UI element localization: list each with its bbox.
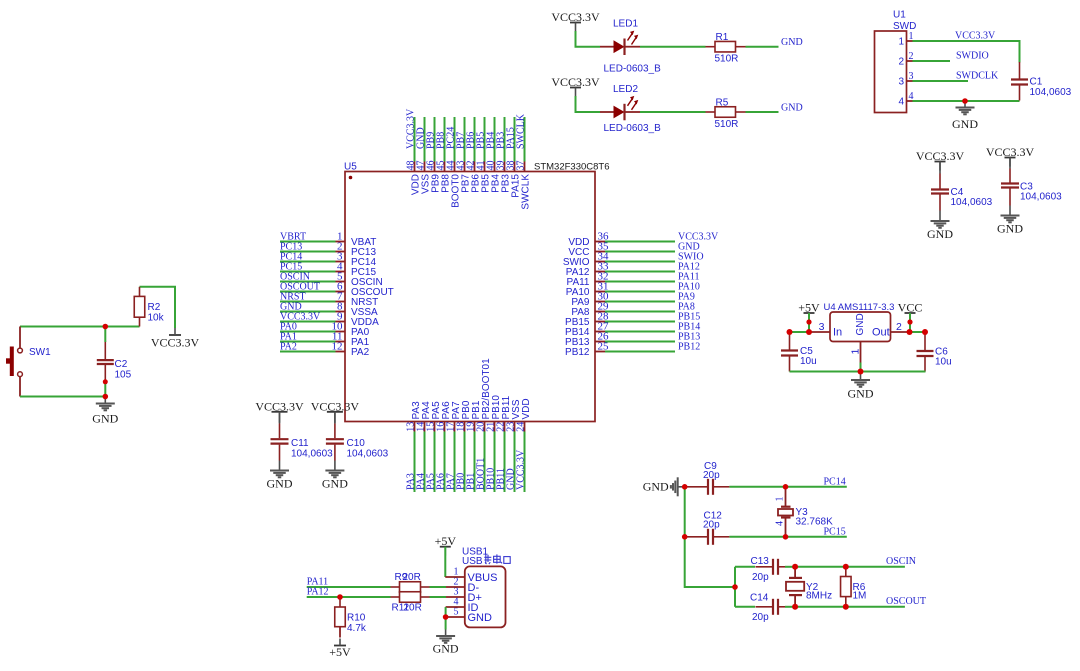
U5 pin 2 PC13 <box>335 241 376 259</box>
U5 pin 27 PB14 <box>565 321 609 339</box>
junction <box>843 564 849 570</box>
capacitor C3 104,0603 <box>1001 158 1062 210</box>
svg-text:C2: C2 <box>115 359 128 370</box>
junction <box>962 98 968 104</box>
capacitor C13 20p <box>751 556 786 583</box>
U5 pin 39 PB3 <box>495 161 511 193</box>
svg-text:1M: 1M <box>853 591 867 602</box>
wire <box>605 331 675 333</box>
junction <box>682 484 688 490</box>
wire <box>514 432 516 493</box>
power VCC (U4 out) <box>898 301 923 323</box>
wire <box>524 432 526 493</box>
U5 pin 30 PA9 <box>571 291 609 309</box>
power VCC3.3V (C10) <box>311 399 360 423</box>
svg-text:PA2: PA2 <box>280 342 297 353</box>
wire U4 Out to C6/VCC <box>909 331 925 333</box>
svg-text:SWCLK: SWCLK <box>515 113 526 149</box>
U5 pin 6 OSCOUT <box>335 281 394 299</box>
wire SW1 bottom <box>20 396 105 398</box>
svg-text:10k: 10k <box>148 313 165 324</box>
junction (C2 pin) <box>103 379 108 384</box>
capacitor C5 10u <box>781 332 817 372</box>
svg-text:C10: C10 <box>347 438 366 449</box>
U5 pin 44 BOOT0 <box>445 161 461 208</box>
svg-text:PC14: PC14 <box>824 476 846 487</box>
wire R9 to USB D- <box>430 586 447 588</box>
svg-text:8MHz: 8MHz <box>806 591 832 602</box>
regulator U4 AMS1117-3.3 <box>810 302 909 363</box>
junction <box>907 329 913 335</box>
wire <box>605 291 675 293</box>
junction <box>792 564 798 570</box>
wire C12 to PC15 <box>729 536 846 538</box>
svg-text:20R: 20R <box>404 603 422 614</box>
wire <box>605 261 675 263</box>
wire gnd down to crystals <box>685 487 735 587</box>
wire U1 pin4 to GND <box>913 100 1020 102</box>
junction <box>682 534 688 540</box>
wire <box>280 331 336 333</box>
wire to C13 <box>735 566 755 568</box>
junction <box>443 614 449 620</box>
resistor R2 10k <box>134 287 164 327</box>
svg-text:LED-0603_B: LED-0603_B <box>604 123 662 134</box>
svg-text:U5: U5 <box>344 162 357 173</box>
wire <box>444 432 446 493</box>
wire C2 bottom <box>104 381 106 397</box>
svg-text:24: 24 <box>515 422 526 432</box>
U5 pin 5 OSCIN <box>335 271 383 289</box>
wire <box>414 117 416 162</box>
capacitor C11 104,0603 <box>271 412 334 464</box>
wire <box>474 432 476 493</box>
wire <box>454 432 456 493</box>
switch SW1 <box>6 327 51 397</box>
U5 pin 17 PA7 <box>445 401 462 432</box>
LED LED2 <box>600 84 661 134</box>
svg-text:R1: R1 <box>716 32 729 43</box>
resistor R5 510R <box>706 97 746 130</box>
wire <box>605 311 675 313</box>
svg-text:2: 2 <box>896 321 902 333</box>
wire C14 to Y2 <box>785 606 795 608</box>
svg-text:VCC3.3V: VCC3.3V <box>551 10 600 24</box>
U5 pin 31 PA10 <box>566 281 609 299</box>
capacitor C10 104,0603 <box>326 412 389 464</box>
resistor R1 510R <box>706 32 746 65</box>
svg-text:104,0603: 104,0603 <box>1030 87 1072 98</box>
wire crystal branch vertical <box>734 567 736 607</box>
U5 pin 24 VDD <box>515 398 532 431</box>
ground (SW1) <box>92 397 118 426</box>
capacitor C6 10u <box>917 332 952 372</box>
svg-text:PA2: PA2 <box>351 347 370 358</box>
wire VCC3.3V to LED2 <box>576 96 601 112</box>
LED LED1 <box>600 19 661 75</box>
crystal Y3 32.768K <box>775 487 834 537</box>
wire <box>524 117 526 162</box>
wire <box>454 117 456 162</box>
wire U4 ground rail <box>790 371 926 373</box>
svg-text:VCC3.3V: VCC3.3V <box>515 449 526 490</box>
svg-text:104,0603: 104,0603 <box>1020 192 1062 203</box>
U5 pin 12 PA2 <box>332 341 370 359</box>
svg-text:10u: 10u <box>800 356 817 367</box>
wire +5V drop <box>808 313 810 332</box>
U5 pin 35 VCC <box>568 241 609 259</box>
power VCC3.3V (LED2) <box>551 75 600 97</box>
U5 pin 41 PB5 <box>475 161 491 193</box>
svg-text:C11: C11 <box>291 438 309 449</box>
wire <box>504 432 506 493</box>
wire <box>494 432 496 493</box>
svg-text:VDD: VDD <box>521 398 532 419</box>
wire R5 to GND net <box>746 111 779 113</box>
svg-text:+5V: +5V <box>435 534 457 548</box>
U5 pin 9 VDDA <box>335 311 379 329</box>
MCU U5 STM32F330C8T6 body <box>344 162 595 422</box>
wire <box>514 117 516 162</box>
U5 pin 20 PB2/BOOT01 <box>475 358 492 432</box>
power VCC3.3V (C4) <box>916 149 965 171</box>
junction <box>792 604 798 610</box>
capacitor C2 105 <box>97 342 132 382</box>
wire <box>280 291 336 293</box>
wire <box>444 117 446 162</box>
U5 pin 25 PB12 <box>565 341 609 359</box>
resistor R11 20R <box>391 592 430 614</box>
svg-text:104,0603: 104,0603 <box>291 449 333 460</box>
svg-text:SWDCLK: SWDCLK <box>956 71 999 82</box>
wire R10 to +5V <box>339 627 341 638</box>
wire <box>414 432 416 493</box>
wire <box>424 117 426 162</box>
junction <box>843 604 849 610</box>
svg-text:VCC3.3V: VCC3.3V <box>311 399 360 413</box>
capacitor C4 104,0603 <box>931 162 993 215</box>
U5 pin 46 PB9 <box>425 161 441 193</box>
U5 pin 23 VSS <box>505 399 522 432</box>
wire <box>280 281 336 283</box>
wire <box>605 281 675 283</box>
svg-text:PB12: PB12 <box>565 347 590 358</box>
wire R2 top to VCC3.3V <box>140 287 176 328</box>
wire <box>280 341 336 343</box>
wire <box>280 251 336 253</box>
U5 pin 14 PA4 <box>415 401 432 432</box>
power +5V (R10) <box>329 639 351 660</box>
U5 pin 32 PA11 <box>567 271 609 289</box>
wire <box>605 271 675 273</box>
wire <box>605 321 675 323</box>
junction <box>922 329 928 335</box>
junction <box>783 484 789 490</box>
U5 pin 29 PA8 <box>571 301 609 319</box>
resistor R6 1M <box>841 567 867 607</box>
svg-text:GND: GND <box>643 479 669 493</box>
ground (crystals) <box>643 477 685 496</box>
svg-text:GND: GND <box>468 612 493 624</box>
wire <box>280 351 336 353</box>
ground (U4) <box>848 372 874 401</box>
junction <box>787 329 793 335</box>
svg-text:510R: 510R <box>715 119 739 130</box>
U5 pin 15 PA5 <box>425 401 442 432</box>
svg-text:R2: R2 <box>148 302 161 313</box>
wire <box>280 241 336 243</box>
svg-text:20p: 20p <box>703 520 720 531</box>
power +5V (U4) <box>798 301 820 323</box>
svg-text:GND: GND <box>322 477 348 491</box>
svg-text:20p: 20p <box>752 572 769 583</box>
svg-text:20p: 20p <box>752 612 769 623</box>
wire SW1 top <box>20 326 140 328</box>
ground (C10) <box>322 464 348 491</box>
connector USB1 USB port <box>445 547 510 628</box>
junction <box>907 319 912 324</box>
svg-text:10u: 10u <box>935 357 952 368</box>
svg-text:GND: GND <box>855 313 866 335</box>
svg-text:OSCIN: OSCIN <box>886 556 916 567</box>
wire OSCOUT <box>795 606 905 608</box>
junction <box>103 324 109 330</box>
wire C9 to PC14 <box>729 486 846 488</box>
power VCC3.3V (R2) <box>151 328 200 350</box>
ground (U1) <box>952 101 978 131</box>
svg-text:PB12: PB12 <box>678 341 700 352</box>
ground (C11) <box>267 464 293 491</box>
wire <box>474 117 476 162</box>
wire <box>605 241 675 243</box>
svg-text:VCC3.3V: VCC3.3V <box>916 149 965 163</box>
svg-text:SW1: SW1 <box>29 347 51 358</box>
capacitor C9 20p <box>686 461 729 495</box>
U5 pin 47 VSS <box>415 161 431 195</box>
U5 pin 16 PA6 <box>435 401 452 432</box>
svg-text:LED2: LED2 <box>613 84 638 95</box>
wire <box>605 251 675 253</box>
svg-text:GND: GND <box>997 222 1023 236</box>
svg-text:GND: GND <box>781 102 803 113</box>
svg-text:20R: 20R <box>403 572 421 583</box>
wire U1 pin2 SWDIO <box>913 60 951 62</box>
U5 pin 43 PB7 <box>455 161 471 193</box>
svg-text:4.7k: 4.7k <box>347 623 367 634</box>
svg-text:R5: R5 <box>716 97 729 108</box>
junction <box>858 369 864 375</box>
svg-text:GND: GND <box>433 642 459 656</box>
svg-text:3: 3 <box>898 77 904 88</box>
svg-text:VCC3.3V: VCC3.3V <box>255 399 304 413</box>
ground (C4) <box>927 215 953 242</box>
U5 pin 13 PA3 <box>405 401 422 432</box>
U5 pin 42 PB6 <box>465 161 481 193</box>
svg-text:PA12: PA12 <box>307 586 329 597</box>
svg-text:3: 3 <box>819 321 825 333</box>
wire LED2 to R5 <box>640 111 706 113</box>
svg-text:1: 1 <box>775 497 786 502</box>
U5 pin 40 PB4 <box>485 161 501 193</box>
wire VCC3.3V to LED1 <box>576 31 601 47</box>
U5 pin 37 SWCLK <box>515 161 531 210</box>
svg-text:2: 2 <box>898 57 904 68</box>
svg-text:GND: GND <box>927 227 953 241</box>
svg-text:VCC: VCC <box>898 301 923 315</box>
junction <box>337 594 343 600</box>
ground (C3) <box>997 209 1023 236</box>
U5 pin 33 PA12 <box>566 261 609 279</box>
svg-text:VCC3.3V: VCC3.3V <box>551 75 600 89</box>
wire U1 pin1 VCC3.3V <box>913 41 1020 63</box>
wire PA11 to R9 <box>307 586 391 588</box>
wire ID to GND pin <box>445 607 447 617</box>
wire <box>464 432 466 493</box>
resistor R9 20R <box>391 572 430 592</box>
svg-text:C14: C14 <box>750 592 769 603</box>
power VCC3.3V (LED1) <box>551 10 600 32</box>
svg-text:VCC3.3V: VCC3.3V <box>955 31 996 42</box>
svg-text:USB: USB <box>462 556 483 567</box>
wire C5 to U4 In <box>790 331 811 333</box>
wire <box>434 432 436 493</box>
wire USB gnd drop <box>445 617 447 630</box>
svg-text:PC15: PC15 <box>824 526 846 537</box>
wire PA12 to R11 <box>307 596 391 598</box>
wire <box>280 271 336 273</box>
ground (USB1) <box>433 630 459 656</box>
U5 pin 4 PC15 <box>335 261 376 279</box>
svg-text:37: 37 <box>515 161 526 171</box>
svg-text:4: 4 <box>898 97 904 108</box>
wire <box>424 432 426 493</box>
wire <box>605 351 675 353</box>
U5 pin 38 PA15 <box>505 161 521 198</box>
U5 pin 19 PB1 <box>465 400 482 432</box>
U5 pin 28 PB15 <box>565 311 609 329</box>
svg-text:GND: GND <box>952 117 978 131</box>
wire <box>494 117 496 162</box>
power +5V (USB1) <box>435 534 457 556</box>
U5 pin 45 PB8 <box>435 161 451 193</box>
svg-text:GND: GND <box>267 477 293 491</box>
U5 pin 34 SWIO <box>563 251 609 269</box>
svg-text:Out: Out <box>872 327 890 339</box>
svg-text:105: 105 <box>115 370 132 381</box>
svg-text:SWDIO: SWDIO <box>956 51 989 62</box>
svg-text:510R: 510R <box>715 54 739 65</box>
junction <box>806 319 811 324</box>
capacitor C1 104,0603 <box>1011 62 1072 101</box>
svg-text:4: 4 <box>775 521 786 526</box>
wire +5V to VBUS <box>444 547 446 577</box>
svg-text:R10: R10 <box>347 613 366 624</box>
junction <box>103 394 109 400</box>
capacitor C14 20p <box>750 592 785 623</box>
svg-text:VCC3.3V: VCC3.3V <box>151 336 200 350</box>
U5 pin 22 PB11 <box>495 395 512 431</box>
wire <box>280 261 336 263</box>
crystal Y2 8MHz <box>786 567 832 607</box>
U5 pin 21 PB10 <box>485 395 502 432</box>
svg-text:LED1: LED1 <box>613 19 638 30</box>
power VCC3.3V (C3) <box>986 145 1035 167</box>
wire R11 to USB D+ <box>430 596 447 598</box>
svg-text:U1: U1 <box>893 10 906 21</box>
svg-text:1: 1 <box>850 349 862 355</box>
U5 pin 48 VDD <box>405 161 421 196</box>
junction <box>806 329 812 335</box>
power VCC3.3V (C11) <box>255 399 304 423</box>
svg-text:104,0603: 104,0603 <box>951 197 993 208</box>
wire C13 to Y2 <box>785 566 795 568</box>
U5 pin 26 PB13 <box>565 331 609 349</box>
capacitor C12 20p <box>686 511 729 545</box>
svg-text:20p: 20p <box>703 470 720 481</box>
wire U4 pin1 to rail <box>860 363 862 372</box>
U5 pin 11 PA1 <box>332 331 370 349</box>
wire <box>280 301 336 303</box>
svg-text:OSCOUT: OSCOUT <box>886 596 926 607</box>
U5 pin 8 VSSA <box>335 301 378 319</box>
U5 pin 18 PB0 <box>455 400 472 432</box>
svg-text:1: 1 <box>898 37 904 48</box>
wire <box>434 117 436 162</box>
svg-text:+5V: +5V <box>798 301 820 315</box>
wire <box>484 117 486 162</box>
svg-text:VCC3.3V: VCC3.3V <box>986 145 1035 159</box>
wire <box>605 341 675 343</box>
svg-text:SWCLK: SWCLK <box>521 174 532 210</box>
junction <box>732 584 738 590</box>
svg-text:+5V: +5V <box>329 645 351 659</box>
svg-text:In: In <box>833 327 842 339</box>
svg-text:LED-0603_B: LED-0603_B <box>604 64 662 75</box>
svg-text:STM32F330C8T6: STM32F330C8T6 <box>534 162 610 173</box>
svg-text:C1: C1 <box>1030 77 1043 88</box>
U5 pin 10 PA0 <box>332 321 370 339</box>
svg-text:C13: C13 <box>751 556 770 567</box>
wire R1 to GND net <box>746 46 779 48</box>
svg-text:GND: GND <box>848 387 874 401</box>
wire <box>464 117 466 162</box>
svg-text:GND: GND <box>781 37 803 48</box>
wire <box>504 117 506 162</box>
wire <box>484 432 486 493</box>
wire LED1 to R1 <box>640 46 706 48</box>
svg-text:5: 5 <box>454 607 459 618</box>
wire U1 pin3 SWDCLK <box>913 80 969 82</box>
svg-text:104,0603: 104,0603 <box>347 449 389 460</box>
connector U1 SWD <box>875 10 917 113</box>
wire <box>280 321 336 323</box>
U5 pin 7 NRST <box>335 291 378 309</box>
U5 pin 36 VDD <box>568 231 609 249</box>
wire to C14 <box>735 606 755 608</box>
wire <box>280 311 336 313</box>
wire C2 top <box>104 327 106 343</box>
U5 pin 3 PC14 <box>335 251 376 269</box>
wire OSCIN <box>795 566 905 568</box>
U5 pin 1 VBAT <box>335 231 376 249</box>
wire <box>605 301 675 303</box>
junction <box>783 534 789 540</box>
wire VCC drop <box>909 313 911 332</box>
svg-text:GND: GND <box>92 412 118 426</box>
resistor R10 4.7k <box>335 597 367 634</box>
